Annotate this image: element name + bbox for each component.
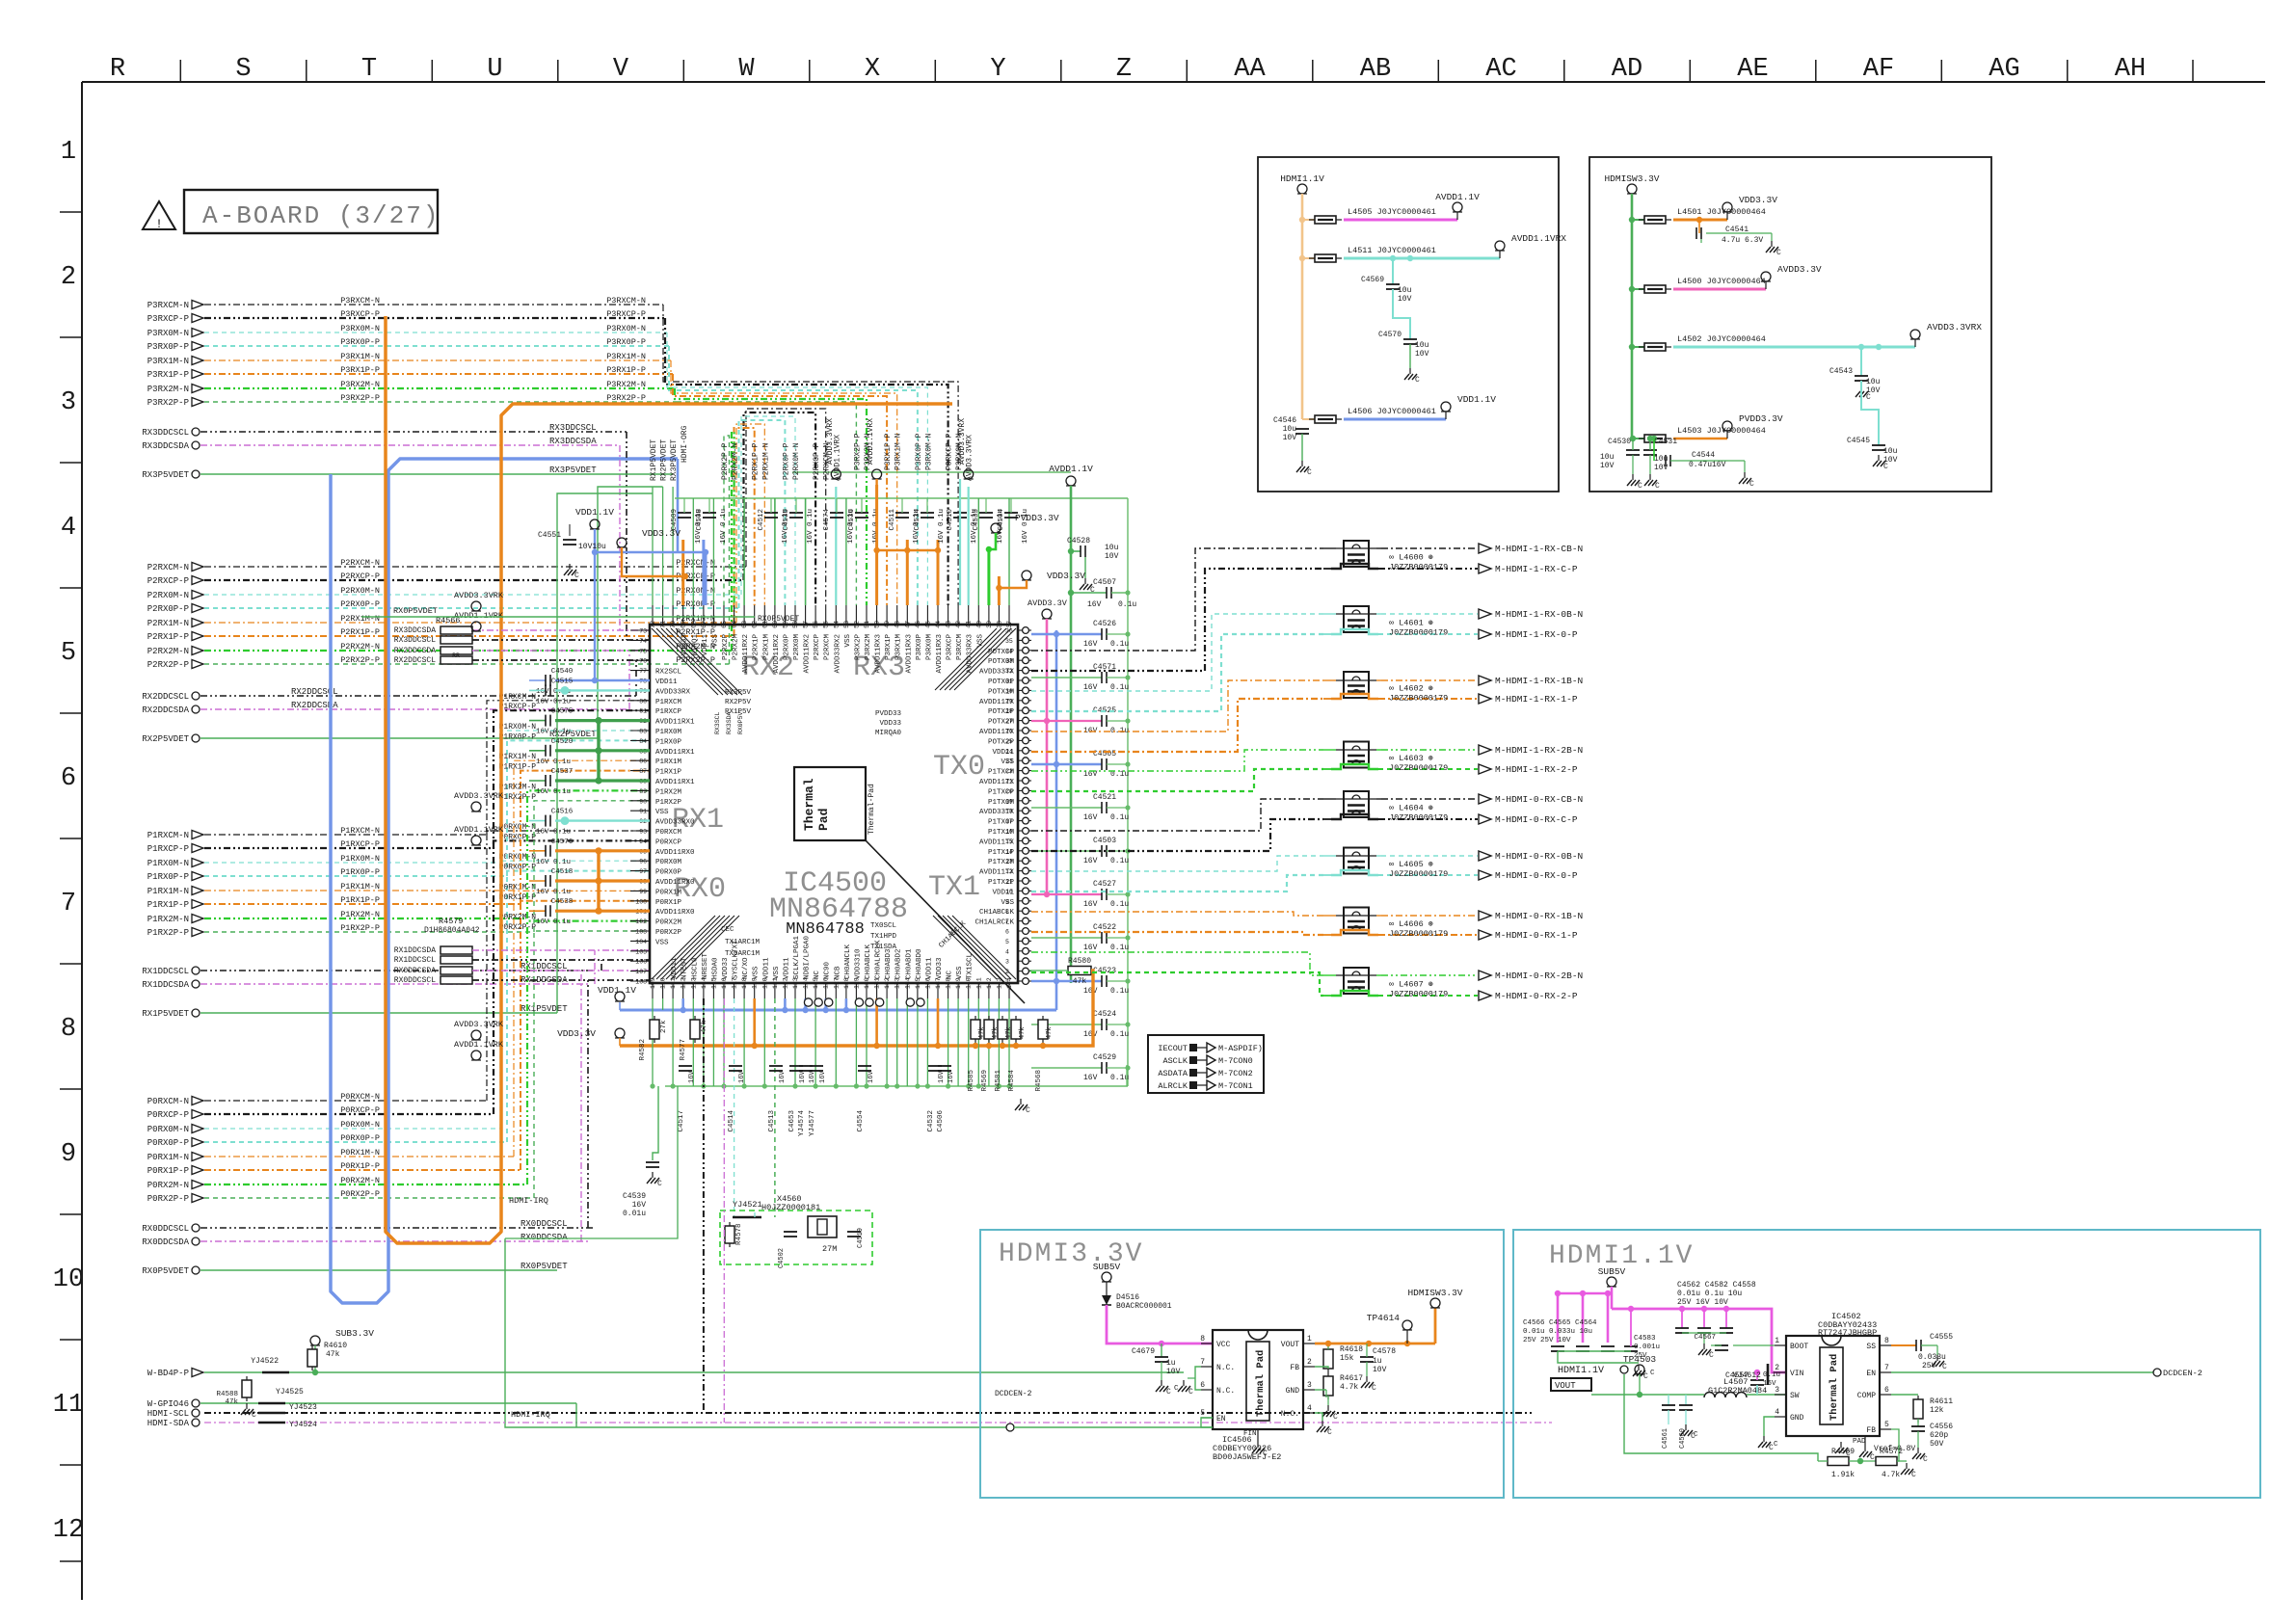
svg-text:L4502 J0JYC0000464: L4502 J0JYC0000464	[1677, 334, 1766, 344]
svg-text:P0RXCM-N: P0RXCM-N	[499, 823, 537, 832]
svg-text:C4560: C4560	[1679, 1428, 1687, 1449]
svg-text:25V 16V 10V: 25V 16V 10V	[1677, 1298, 1728, 1307]
svg-text:P0RXCP-P: P0RXCP-P	[147, 1110, 189, 1120]
svg-text:N.C.: N.C.	[1216, 1387, 1235, 1396]
svg-text:2: 2	[1775, 1364, 1779, 1372]
svg-text:AG: AG	[1989, 55, 2019, 84]
svg-text:!: !	[155, 217, 163, 231]
svg-text:16V 0.1u: 16V 0.1u	[536, 829, 571, 837]
svg-text:67: 67	[701, 621, 707, 628]
svg-text:R4585: R4585	[968, 1070, 975, 1092]
svg-text:TX0SCL: TX0SCL	[870, 922, 897, 930]
svg-text:P1TXCP: P1TXCP	[988, 788, 1015, 796]
svg-text:C4526: C4526	[1093, 620, 1116, 628]
svg-text:SCLK/LPGA1: SCLK/LPGA1	[793, 935, 801, 979]
svg-text:J0ZZB0000179: J0ZZB0000179	[1389, 563, 1448, 572]
svg-text:M-HDMI-0-RX-0B-N: M-HDMI-0-RX-0B-N	[1495, 851, 1583, 862]
svg-text:P2RX1P-P: P2RX1P-P	[752, 442, 761, 480]
svg-text:AVDD11RX0: AVDD11RX0	[655, 909, 695, 917]
svg-text:GND: GND	[1286, 1387, 1300, 1396]
svg-text:64: 64	[732, 621, 738, 628]
svg-text:C: C	[1026, 1106, 1030, 1115]
svg-text:C4521: C4521	[1093, 793, 1116, 802]
svg-text:C4530: C4530	[1608, 438, 1631, 446]
svg-text:P3RX1M: P3RX1M	[895, 634, 903, 661]
svg-text:VDD33: VDD33	[722, 957, 730, 979]
svg-text:SS: SS	[1866, 1343, 1876, 1351]
svg-text:P0RX0M: P0RX0M	[655, 859, 682, 866]
svg-text:C4583: C4583	[1634, 1335, 1656, 1343]
svg-text:M-HDMI-0-RX-1-P: M-HDMI-0-RX-1-P	[1495, 930, 1578, 941]
svg-text:16V: 16V	[632, 1201, 647, 1210]
svg-text:P3RX0M: P3RX0M	[925, 634, 933, 661]
svg-text:ASCLK: ASCLK	[1162, 1056, 1188, 1066]
svg-text:10V10u: 10V10u	[578, 543, 606, 551]
svg-text:P3RXCP-P: P3RXCP-P	[606, 309, 646, 319]
svg-text:10V: 10V	[1373, 1366, 1387, 1374]
svg-text:M-HDMI-1-RX-0B-N: M-HDMI-1-RX-0B-N	[1495, 609, 1583, 620]
svg-text:P1RXCP-P: P1RXCP-P	[340, 839, 380, 849]
svg-text:AVDD1.1VRK: AVDD1.1VRK	[454, 825, 504, 835]
svg-text:RX2SCL: RX2SCL	[655, 669, 682, 677]
svg-text:C4514: C4514	[728, 1110, 735, 1132]
svg-text:49: 49	[884, 621, 891, 628]
svg-text:BOOT: BOOT	[1790, 1343, 1808, 1351]
svg-text:C4539: C4539	[623, 1192, 646, 1201]
svg-text:91: 91	[639, 809, 647, 815]
svg-text:C4566 C4565 C4564: C4566 C4565 C4564	[1523, 1319, 1597, 1327]
svg-text:3: 3	[61, 388, 76, 417]
svg-text:10u: 10u	[1600, 453, 1615, 462]
svg-text:P0RX0M-N: P0RX0M-N	[147, 1125, 189, 1134]
svg-text:P3RX0P-P: P3RX0P-P	[147, 342, 189, 352]
svg-text:M-HDMI-0-RX-2B-N: M-HDMI-0-RX-2B-N	[1495, 971, 1583, 981]
svg-text:86: 86	[639, 758, 647, 765]
svg-text:16V 0.1u: 16V 0.1u	[807, 509, 814, 544]
svg-text:10u: 10u	[1866, 378, 1881, 386]
svg-text:10V: 10V	[1105, 552, 1119, 561]
svg-text:P2RX0M-N: P2RX0M-N	[340, 586, 380, 596]
svg-text:RX2P5VDET: RX2P5VDET	[142, 734, 189, 744]
svg-text:5: 5	[1200, 1409, 1205, 1418]
svg-text:81: 81	[639, 708, 647, 715]
svg-text:CH0ANCLK: CH0ANCLK	[844, 944, 852, 979]
svg-text:∞ L4607 ⊛: ∞ L4607 ⊛	[1389, 980, 1433, 990]
svg-text:P0RX1M-N: P0RX1M-N	[499, 883, 537, 891]
svg-text:C4540: C4540	[551, 668, 574, 676]
svg-text:5: 5	[61, 639, 76, 668]
svg-text:44: 44	[935, 621, 942, 628]
svg-text:P2RXCM-N: P2RXCM-N	[147, 563, 189, 572]
svg-text:16V: 16V	[938, 1071, 946, 1083]
svg-text:8: 8	[61, 1015, 76, 1044]
svg-text:R4582: R4582	[639, 1039, 647, 1061]
svg-text:RX1DDCSDA: RX1DDCSDA	[394, 946, 436, 955]
svg-text:AH: AH	[2115, 55, 2146, 84]
svg-text:RX0DDCSCL: RX0DDCSCL	[521, 1219, 568, 1229]
svg-text:C4510: C4510	[947, 509, 954, 531]
svg-text:AD: AD	[1612, 55, 1642, 84]
svg-text:P3RXCP-P: P3RXCP-P	[946, 433, 954, 470]
svg-text:COMP: COMP	[1857, 1392, 1876, 1400]
svg-text:108: 108	[635, 979, 647, 986]
svg-text:C: C	[1188, 1388, 1193, 1397]
svg-text:25V 25V 10V: 25V 25V 10V	[1523, 1337, 1571, 1344]
svg-text:R4617: R4617	[1340, 1374, 1363, 1383]
svg-text:P0RX1P-P: P0RX1P-P	[147, 1166, 189, 1176]
svg-text:16V: 16V	[1083, 987, 1098, 996]
svg-text:R4581: R4581	[995, 1070, 1002, 1092]
svg-text:P1RX2P-P: P1RX2P-P	[340, 923, 380, 933]
svg-text:16V: 16V	[809, 1071, 816, 1083]
svg-text:PVDD3.3V: PVDD3.3V	[1015, 513, 1059, 523]
svg-text:16V: 16V	[1083, 640, 1098, 649]
svg-text:P3RX0P: P3RX0P	[916, 634, 923, 661]
svg-text:P1RX2M-N: P1RX2M-N	[340, 910, 380, 919]
svg-text:P1RX2M-N: P1RX2M-N	[147, 915, 189, 924]
svg-text:NIRQ1: NIRQ1	[691, 634, 699, 656]
svg-text:Pad: Pad	[816, 809, 831, 831]
svg-text:RX0DDCSDA: RX0DDCSDA	[394, 967, 436, 975]
svg-text:NDBI/LPGA0: NDBI/LPGA0	[804, 935, 812, 979]
svg-text:D4516: D4516	[1116, 1293, 1139, 1302]
svg-text:C: C	[1263, 1450, 1268, 1458]
svg-text:RX0DDCSDA: RX0DDCSDA	[142, 1237, 189, 1247]
svg-text:D1H86804A042: D1H86804A042	[424, 926, 480, 935]
svg-text:P2RX0M: P2RX0M	[793, 634, 801, 661]
svg-text:U: U	[487, 55, 502, 84]
svg-text:AF: AF	[1863, 55, 1894, 84]
svg-text:93: 93	[639, 829, 647, 836]
svg-text:72: 72	[650, 621, 656, 628]
svg-text:M-HDMI-1-RX-0-P: M-HDMI-1-RX-0-P	[1495, 629, 1578, 640]
svg-text:ASDATA: ASDATA	[1158, 1069, 1188, 1078]
svg-text:P0RX1M-N: P0RX1M-N	[147, 1153, 189, 1162]
svg-text:105: 105	[635, 948, 647, 955]
svg-text:0.033u: 0.033u	[1918, 1353, 1946, 1362]
svg-text:∞ L4606 ⊛: ∞ L4606 ⊛	[1389, 919, 1433, 929]
svg-text:P3RX0P-P: P3RX0P-P	[340, 337, 380, 347]
svg-text:VDD11: VDD11	[762, 957, 770, 979]
svg-text:10V: 10V	[1398, 295, 1412, 304]
svg-text:76: 76	[639, 658, 647, 665]
svg-text:VSS: VSS	[655, 939, 669, 946]
svg-text:FB: FB	[1866, 1426, 1876, 1435]
svg-text:P1RX2P: P1RX2P	[655, 799, 682, 807]
svg-text:C: C	[252, 1411, 256, 1420]
svg-text:RX0P5V: RX0P5V	[737, 711, 744, 734]
svg-text:57: 57	[803, 621, 810, 628]
svg-text:P0RXCP-P: P0RXCP-P	[499, 833, 537, 841]
svg-text:P1TX1P: P1TX1P	[988, 849, 1015, 857]
svg-text:HDMI-IRQ: HDMI-IRQ	[509, 1196, 548, 1206]
svg-text:3: 3	[1775, 1386, 1779, 1395]
svg-text:97: 97	[639, 868, 647, 875]
svg-text:P1TX0P: P1TX0P	[988, 819, 1015, 827]
svg-text:16V: 16V	[1083, 944, 1098, 952]
svg-text:5: 5	[1005, 939, 1009, 945]
svg-text:HSDA0: HSDA0	[711, 957, 719, 979]
svg-text:P0RX2P-P: P0RX2P-P	[147, 1194, 189, 1204]
svg-text:P3RX1M-N: P3RX1M-N	[606, 352, 646, 361]
svg-text:C4518: C4518	[551, 868, 574, 876]
svg-text:16V: 16V	[1083, 1030, 1098, 1039]
svg-text:P2RXCP: P2RXCP	[814, 634, 821, 661]
svg-text:AB: AB	[1360, 55, 1391, 84]
svg-text:C4556: C4556	[1930, 1423, 1953, 1431]
svg-text:47k: 47k	[326, 1350, 340, 1359]
svg-text:M-7CON2: M-7CON2	[1218, 1069, 1253, 1078]
svg-text:P1RX0P-P: P1RX0P-P	[340, 867, 380, 877]
svg-text:4: 4	[1775, 1408, 1779, 1417]
svg-text:C: C	[1942, 1363, 1947, 1371]
svg-text:P3RXCM-N: P3RXCM-N	[340, 296, 380, 306]
svg-text:C4529: C4529	[1093, 1053, 1116, 1062]
svg-text:YJ4577: YJ4577	[809, 1110, 816, 1136]
svg-text:16V: 16V	[779, 1071, 787, 1083]
svg-text:VDD33: VDD33	[681, 634, 689, 656]
svg-text:C4533: C4533	[973, 509, 980, 531]
svg-text:47k: 47k	[1073, 977, 1087, 986]
svg-text:C: C	[1655, 482, 1660, 491]
svg-text:P3RX1M-N: P3RX1M-N	[894, 433, 903, 470]
svg-text:10u: 10u	[1883, 447, 1898, 456]
svg-text:R: R	[110, 55, 125, 84]
svg-text:DCDCEN-2: DCDCEN-2	[2163, 1369, 2203, 1378]
svg-text:P0RX0M-N: P0RX0M-N	[499, 853, 537, 862]
svg-text:H0JZZ0000181: H0JZZ0000181	[761, 1203, 820, 1212]
svg-text:AVDD1.1VRK: AVDD1.1VRK	[454, 611, 504, 621]
svg-text:16V: 16V	[1087, 600, 1102, 609]
svg-text:P0RXCM-N: P0RXCM-N	[147, 1097, 189, 1106]
svg-text:R4578: R4578	[735, 1223, 743, 1245]
svg-text:C4576: C4576	[551, 838, 574, 846]
svg-text:P3RXCP-P: P3RXCP-P	[147, 314, 189, 324]
svg-text:54: 54	[833, 621, 840, 628]
svg-text:YJ4524: YJ4524	[289, 1421, 317, 1429]
svg-text:Thermal Pad: Thermal Pad	[1829, 1354, 1840, 1421]
svg-text:94: 94	[639, 838, 647, 845]
svg-text:J0ZZB0000179: J0ZZB0000179	[1389, 628, 1448, 638]
svg-text:C4520: C4520	[551, 738, 574, 746]
svg-text:P3RX1M-N: P3RX1M-N	[147, 357, 189, 366]
svg-text:47k: 47k	[1019, 1026, 1027, 1039]
svg-text:C4528: C4528	[1067, 537, 1090, 545]
svg-text:SUB5V: SUB5V	[1598, 1266, 1626, 1277]
svg-text:AVDD11RX1: AVDD11RX1	[655, 719, 695, 727]
svg-text:47k: 47k	[701, 1020, 708, 1033]
svg-text:P1RX0M-N: P1RX0M-N	[499, 723, 537, 732]
svg-text:P3RX0P-P: P3RX0P-P	[606, 337, 646, 347]
svg-text:P0RX2M-N: P0RX2M-N	[340, 1176, 380, 1185]
svg-text:P1RXCP-P: P1RXCP-P	[499, 703, 537, 711]
svg-text:C4554: C4554	[857, 1110, 865, 1132]
svg-text:C4567: C4567	[1694, 1334, 1716, 1342]
svg-text:7: 7	[1200, 1358, 1205, 1367]
svg-text:10u: 10u	[1415, 341, 1429, 350]
svg-text:CH0ABD1: CH0ABD1	[905, 948, 913, 979]
svg-text:W-GPIO46: W-GPIO46	[147, 1399, 189, 1409]
svg-text:N.C.: N.C.	[1216, 1364, 1235, 1372]
svg-text:AA: AA	[1234, 55, 1266, 84]
svg-text:C: C	[1776, 249, 1781, 257]
svg-text:AVDD11RX0: AVDD11RX0	[655, 879, 695, 887]
svg-text:12: 12	[53, 1516, 84, 1545]
svg-text:POTX0M: POTX0M	[988, 658, 1015, 666]
svg-text:P1RX0M-N: P1RX0M-N	[147, 859, 189, 868]
svg-text:EN: EN	[1866, 1370, 1876, 1378]
svg-text:P2RX2M-N: P2RX2M-N	[732, 442, 740, 480]
svg-text:P2RX0P-P: P2RX0P-P	[147, 604, 189, 614]
svg-text:AVDD33RX: AVDD33RX	[655, 688, 691, 696]
svg-text:P3RXCM-N: P3RXCM-N	[147, 301, 189, 310]
svg-text:C4543: C4543	[1829, 367, 1853, 376]
svg-text:10V: 10V	[1166, 1368, 1181, 1376]
svg-text:VDD11: VDD11	[925, 957, 933, 979]
svg-text:P2RX2P-P: P2RX2P-P	[721, 442, 730, 480]
svg-text:P2RX1M: P2RX1M	[762, 634, 770, 661]
svg-text:P0RX0M-N: P0RX0M-N	[340, 1120, 380, 1130]
svg-text:HDMI1.1V: HDMI1.1V	[1280, 173, 1324, 184]
svg-text:55: 55	[823, 621, 830, 628]
svg-text:RX3SDA: RX3SDA	[726, 711, 733, 734]
svg-text:C4517: C4517	[678, 1110, 685, 1132]
svg-text:VJ4612: VJ4612	[1733, 1371, 1761, 1380]
svg-text:104: 104	[635, 939, 647, 945]
svg-text:AVDD11RX3: AVDD11RX3	[905, 634, 913, 674]
svg-text:AVDD11TX: AVDD11TX	[979, 838, 1015, 846]
svg-text:SUB3.3V: SUB3.3V	[335, 1328, 374, 1339]
svg-text:MIRQA0: MIRQA0	[875, 730, 902, 737]
svg-text:C: C	[1923, 1455, 1928, 1464]
svg-text:P2RX0P: P2RX0P	[783, 634, 790, 661]
svg-text:L4506 J0JYC0000461: L4506 J0JYC0000461	[1348, 407, 1436, 416]
svg-text:NC: NC	[814, 970, 821, 979]
svg-text:∞ L4602 ⊛: ∞ L4602 ⊛	[1389, 684, 1433, 694]
svg-text:1.91k: 1.91k	[1831, 1471, 1855, 1479]
svg-text:15k: 15k	[1340, 1354, 1354, 1363]
svg-text:27M: 27M	[822, 1244, 837, 1254]
svg-text:TP4503: TP4503	[1623, 1354, 1657, 1365]
svg-text:VDD11: VDD11	[992, 749, 1014, 757]
svg-text:R4584: R4584	[1008, 1070, 1016, 1092]
svg-text:C: C	[1638, 482, 1642, 491]
svg-text:TX1SCL: TX1SCL	[967, 952, 974, 979]
svg-text:HSCL0: HSCL0	[691, 957, 699, 979]
svg-text:11: 11	[53, 1391, 84, 1420]
svg-text:P3RX0M-N: P3RX0M-N	[924, 433, 933, 470]
svg-text:10V: 10V	[1415, 350, 1429, 359]
svg-text:VDD3.3V: VDD3.3V	[557, 1028, 596, 1039]
svg-text:P0RXCM-N: P0RXCM-N	[340, 1092, 380, 1102]
svg-text:R4579: R4579	[439, 917, 464, 926]
svg-text:C4513: C4513	[768, 1110, 776, 1132]
svg-text:7: 7	[61, 890, 76, 918]
svg-text:RX0P5VDET: RX0P5VDET	[393, 606, 438, 616]
svg-text:FIN: FIN	[1243, 1430, 1257, 1438]
svg-text:56: 56	[813, 621, 819, 628]
svg-text:AVDD11RX1: AVDD11RX1	[655, 779, 695, 786]
svg-text:12k: 12k	[1930, 1406, 1944, 1415]
svg-text:YJ4574: YJ4574	[798, 1110, 806, 1137]
svg-text:10V: 10V	[1600, 462, 1615, 470]
svg-text:VIN: VIN	[1790, 1370, 1804, 1378]
svg-text:J0ZZB0000179: J0ZZB0000179	[1389, 990, 1448, 999]
svg-text:RX2P5VDET: RX2P5VDET	[660, 439, 669, 481]
svg-text:AVDD3.3VRX: AVDD3.3VRX	[826, 418, 835, 465]
svg-text:M-7CON0: M-7CON0	[1218, 1056, 1253, 1066]
svg-text:48: 48	[894, 621, 901, 628]
svg-text:P3RX2P-P: P3RX2P-P	[147, 398, 189, 408]
svg-text:POTXCP: POTXCP	[988, 649, 1015, 656]
svg-text:P0RX2P-P: P0RX2P-P	[340, 1189, 380, 1199]
svg-text:P2RX0P-P: P2RX0P-P	[340, 599, 380, 609]
svg-text:C: C	[657, 1180, 662, 1188]
svg-text:RX2P5V: RX2P5V	[725, 699, 752, 706]
svg-text:P1RXCP: P1RXCP	[655, 708, 682, 716]
svg-text:HDMI-SDA: HDMI-SDA	[147, 1419, 190, 1428]
svg-text:P2RXCM-N: P2RXCM-N	[340, 558, 380, 568]
svg-text:16V: 16V	[1083, 813, 1098, 822]
svg-text:41: 41	[966, 621, 973, 628]
svg-text:EN: EN	[1216, 1415, 1226, 1423]
svg-text:P0RX0P-P: P0RX0P-P	[340, 1133, 380, 1143]
svg-text:6: 6	[1884, 1386, 1889, 1395]
svg-text:CH0ABD2: CH0ABD2	[895, 948, 903, 979]
svg-text:70: 70	[670, 621, 677, 628]
svg-text:46: 46	[915, 621, 921, 628]
svg-text:C4515: C4515	[551, 678, 574, 685]
svg-text:M-HDMI-1-RX-1B-N: M-HDMI-1-RX-1B-N	[1495, 676, 1583, 686]
svg-text:P1RX2P-P: P1RX2P-P	[499, 793, 537, 802]
svg-text:M-7CON1: M-7CON1	[1218, 1081, 1253, 1091]
svg-text:0.01u 0.033u 10u: 0.01u 0.033u 10u	[1523, 1328, 1592, 1336]
svg-text:R4588: R4588	[216, 1391, 238, 1398]
svg-text:M-HDMI-0-RX-0-P: M-HDMI-0-RX-0-P	[1495, 870, 1578, 881]
svg-text:C4679: C4679	[1132, 1347, 1155, 1356]
svg-text:16V: 16V	[868, 1071, 875, 1083]
svg-text:0.1u: 0.1u	[1118, 600, 1136, 609]
svg-text:P2RXCP-P: P2RXCP-P	[147, 576, 189, 586]
svg-text:VSS: VSS	[711, 634, 719, 648]
svg-text:RX0DDCSCL: RX0DDCSCL	[142, 1224, 189, 1234]
svg-text:CH1ALRCLK: CH1ALRCLK	[974, 919, 1014, 927]
svg-text:SW: SW	[1790, 1392, 1800, 1400]
svg-text:P2RX1M-N: P2RX1M-N	[147, 619, 189, 628]
svg-text:C4504: C4504	[998, 509, 1005, 531]
svg-text:VSS: VSS	[655, 809, 669, 816]
svg-text:AVDD3.3V: AVDD3.3V	[1028, 599, 1068, 608]
svg-text:AVDD11RX0: AVDD11RX0	[655, 849, 695, 857]
svg-text:RX3P5V: RX3P5V	[725, 689, 752, 697]
svg-text:L4501 J0JYC0000464: L4501 J0JYC0000464	[1677, 207, 1766, 217]
svg-text:AVDD1.1V: AVDD1.1V	[1049, 464, 1093, 474]
svg-text:C: C	[1846, 1450, 1851, 1458]
svg-text:VDD3310: VDD3310	[854, 948, 862, 979]
svg-text:C4534: C4534	[914, 509, 921, 531]
svg-text:C: C	[1749, 480, 1754, 489]
svg-text:SUB5V: SUB5V	[1093, 1262, 1121, 1272]
svg-text:VDD11: VDD11	[655, 678, 678, 686]
svg-text:47k: 47k	[225, 1398, 238, 1406]
svg-text:C4531: C4531	[1654, 438, 1677, 446]
svg-text:106: 106	[635, 959, 647, 966]
svg-text:RX0P5VDET: RX0P5VDET	[758, 615, 799, 624]
svg-text:C4502: C4502	[778, 1248, 786, 1268]
svg-text:P3RX2M-N: P3RX2M-N	[340, 380, 380, 389]
svg-text:PAD: PAD	[1853, 1438, 1866, 1446]
svg-text:63: 63	[741, 621, 748, 628]
